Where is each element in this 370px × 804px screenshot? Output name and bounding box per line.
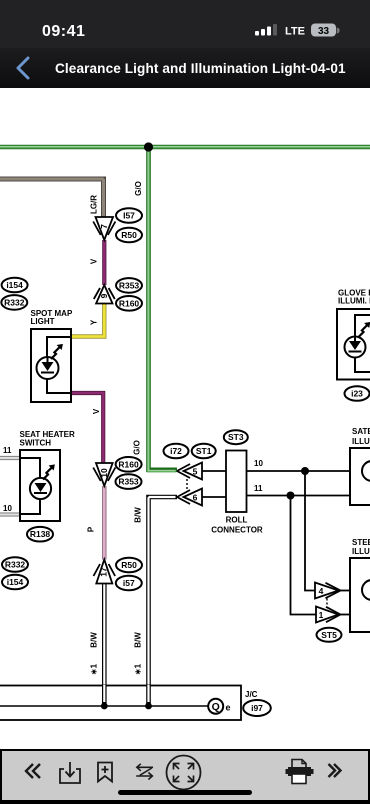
svg-text:R353: R353 [119,280,140,290]
svg-text:6: 6 [193,493,198,503]
svg-text:i57: i57 [123,578,135,588]
svg-text:STEERING: STEERING [352,538,370,547]
svg-text:11: 11 [254,484,263,493]
svg-text:V: V [92,408,101,414]
svg-text:i23: i23 [351,389,363,399]
svg-text:R138: R138 [30,529,51,539]
svg-text:B/W: B/W [134,507,143,523]
svg-text:SATELLITE: SATELLITE [352,427,370,436]
svg-text:i154: i154 [6,280,23,290]
svg-text:J/C: J/C [245,690,258,699]
svg-text:G/O: G/O [134,181,143,196]
svg-text:R353: R353 [118,477,139,487]
svg-text:LTE: LTE [285,26,305,38]
svg-text:Y: Y [90,319,99,325]
svg-text:5: 5 [193,467,198,477]
svg-text:∗1: ∗1 [90,663,99,675]
svg-text:P: P [87,526,96,532]
svg-text:4: 4 [319,586,324,596]
svg-text:1: 1 [319,610,324,620]
svg-text:7: 7 [99,224,109,229]
svg-text:R50: R50 [121,230,137,240]
svg-text:e: e [226,703,231,713]
svg-text:B/W: B/W [134,632,143,648]
svg-text:ST5: ST5 [321,630,337,640]
svg-text:i154: i154 [7,577,24,587]
svg-text:17: 17 [99,567,109,577]
svg-text:R332: R332 [4,297,25,307]
svg-text:i97: i97 [251,703,263,713]
svg-text:ST1: ST1 [196,446,212,456]
svg-text:V: V [90,258,99,264]
svg-text:ILLUMI. LIG: ILLUMI. LIG [352,547,370,556]
svg-text:ILLUMI. LIGHT: ILLUMI. LIGHT [338,297,370,306]
svg-text:i72: i72 [170,446,182,456]
svg-text:ROLL: ROLL [226,516,248,525]
svg-text:ST3: ST3 [228,432,244,442]
svg-text:SWITCH: SWITCH [20,439,52,448]
svg-text:R332: R332 [5,560,26,570]
svg-text:Q: Q [212,701,220,713]
svg-text:∗1: ∗1 [134,663,143,675]
svg-text:B/W: B/W [90,632,99,648]
svg-text:33: 33 [318,26,330,37]
svg-text:10: 10 [3,504,12,513]
svg-text:CONNECTOR: CONNECTOR [211,526,263,535]
svg-text:9: 9 [99,293,109,298]
svg-text:G/O: G/O [133,440,142,455]
svg-text:R160: R160 [118,459,139,469]
svg-text:I57: I57 [123,211,135,221]
svg-text:LG/R: LG/R [90,195,99,214]
svg-text:11: 11 [3,446,12,455]
svg-text:LIGHT: LIGHT [31,317,55,326]
svg-text:ILLUMI. LIG: ILLUMI. LIG [352,437,370,446]
svg-text:R50: R50 [121,560,137,570]
svg-text:10: 10 [99,468,109,478]
svg-text:R160: R160 [119,298,140,308]
svg-text:10: 10 [254,459,263,468]
